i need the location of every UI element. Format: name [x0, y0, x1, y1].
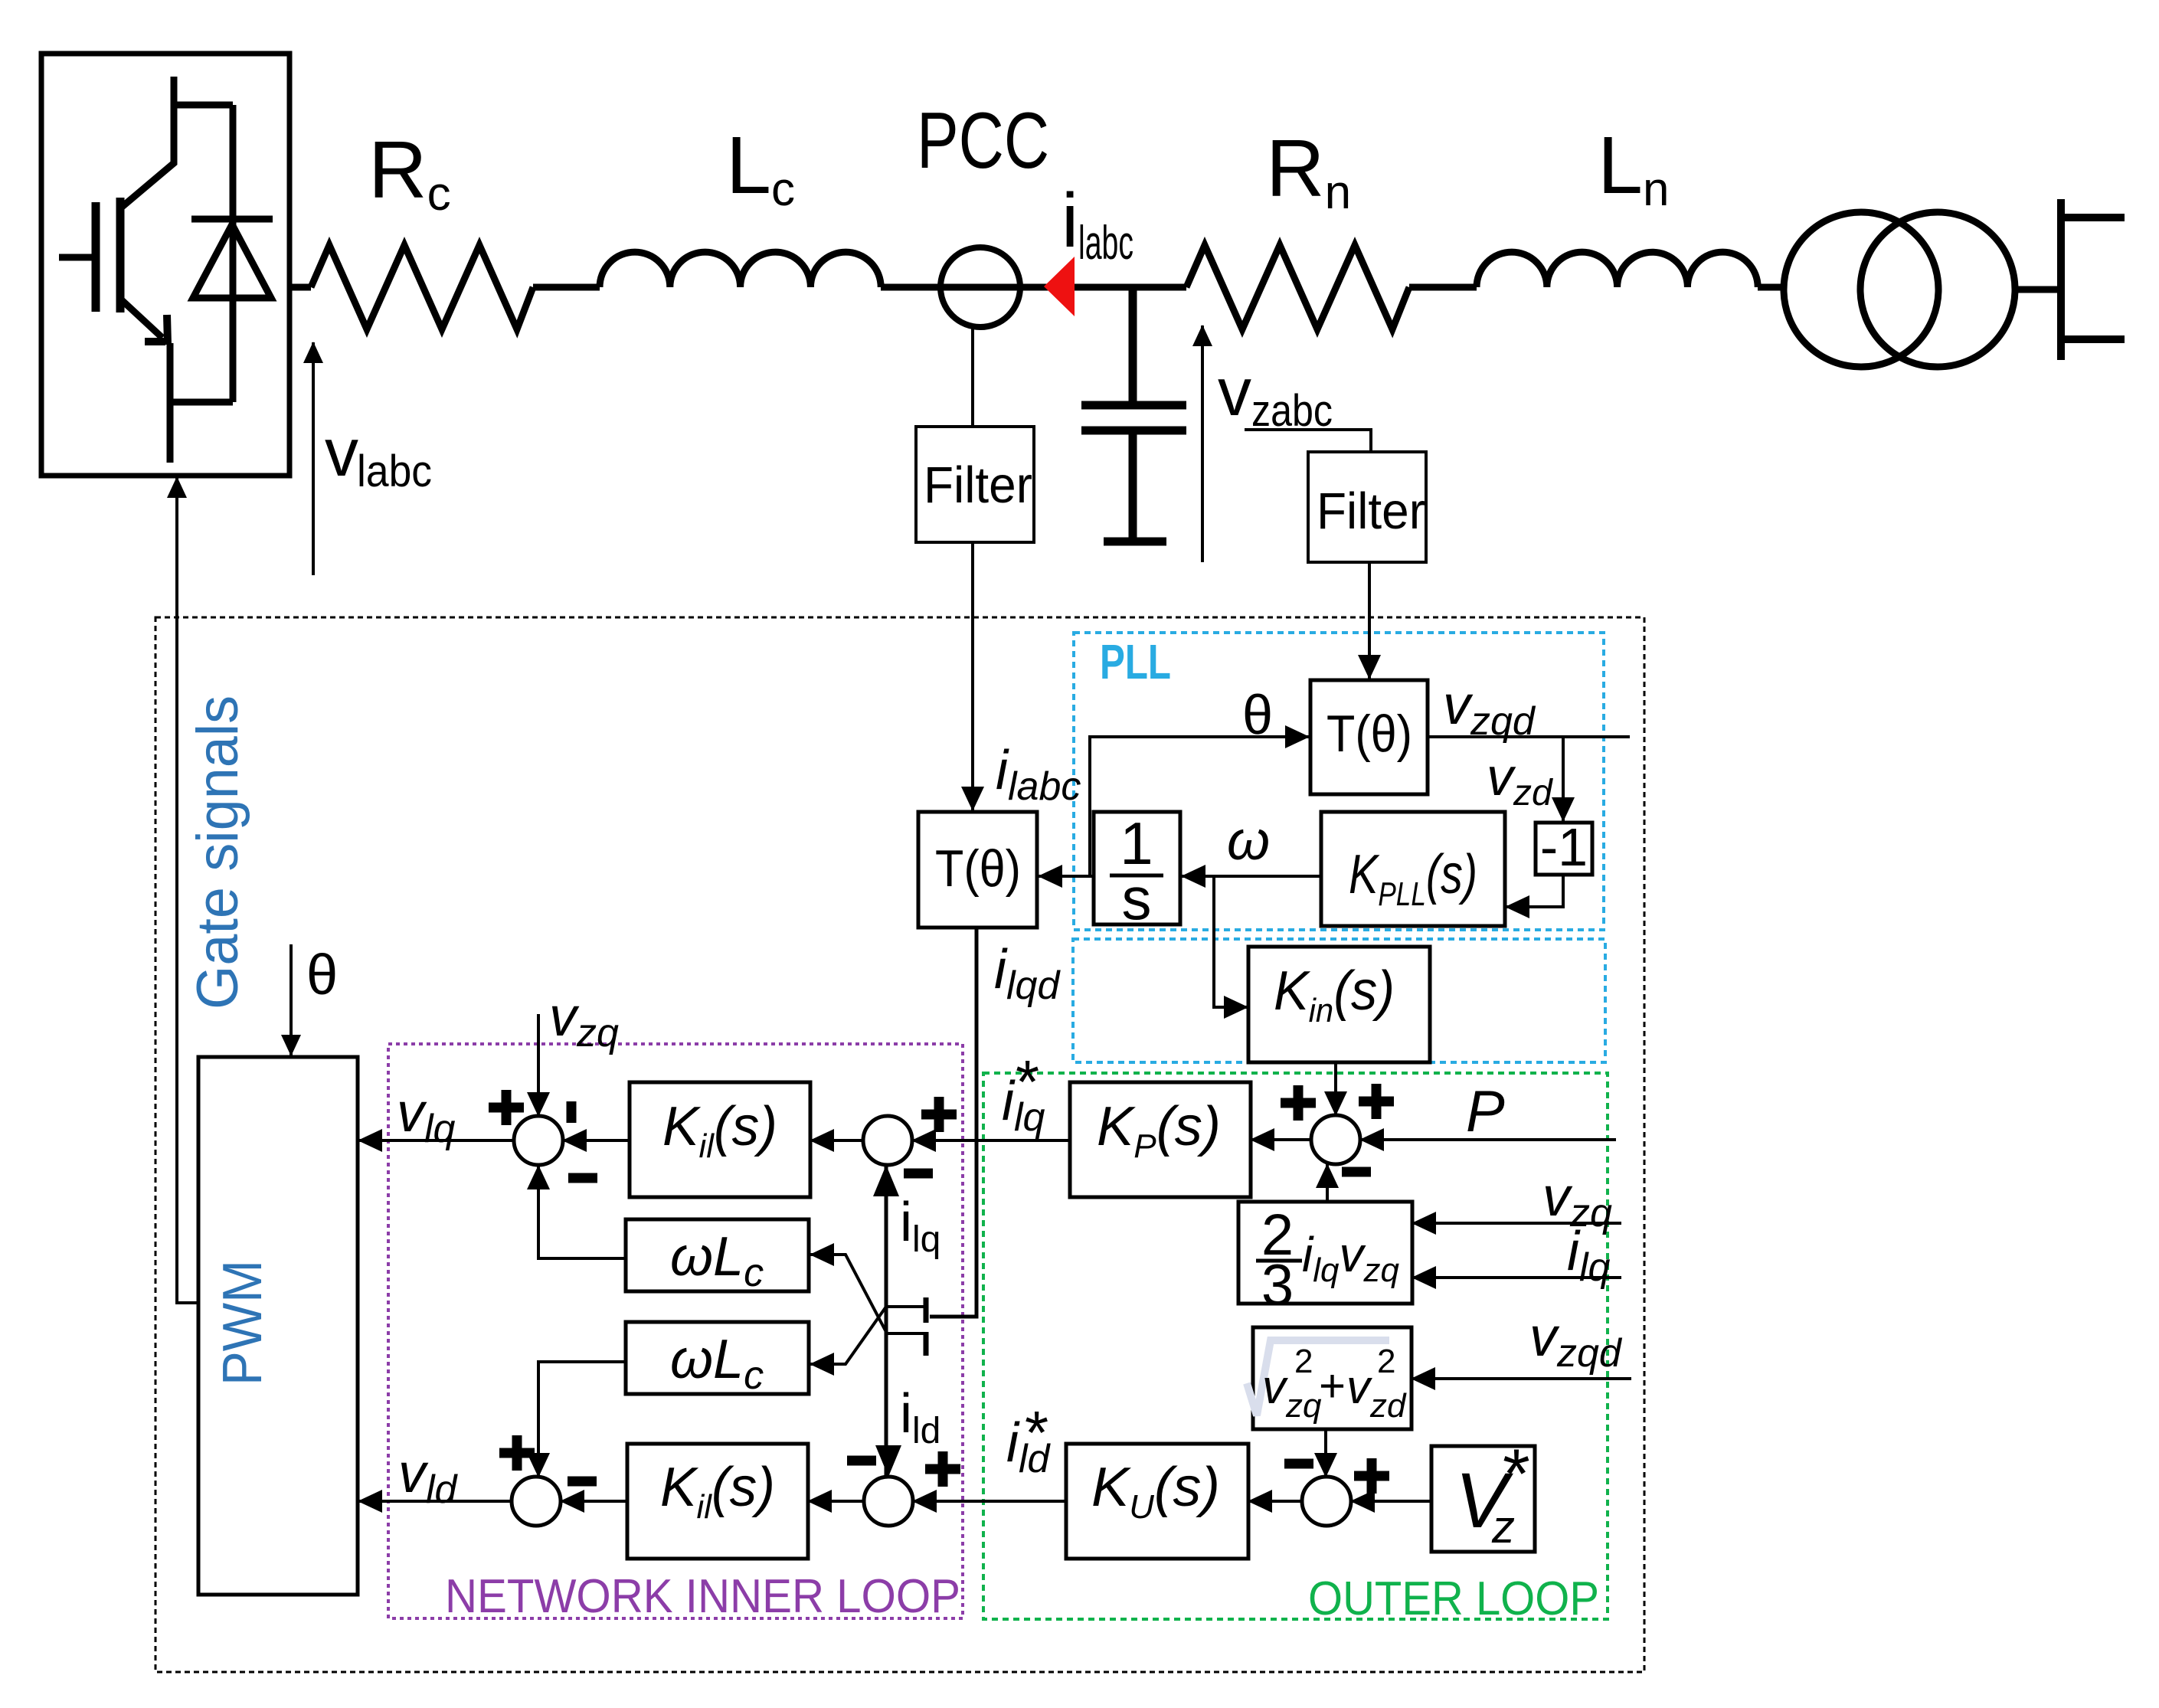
svg-text:v: v: [1218, 354, 1251, 430]
wire K_in to outer sum: [1334, 1062, 1337, 1115]
svg-text:KU(s): KU(s): [1091, 1457, 1220, 1526]
junction bar 2 (i_ld tap): [924, 1332, 929, 1356]
svg-text:PWM: PWM: [212, 1260, 273, 1386]
radical sign (light): [1247, 1340, 1389, 1415]
block K_il(s) q: [630, 1082, 810, 1197]
wire v_zabc tap to Filter2: [1245, 430, 1371, 452]
sign minus q-left bottom: [568, 1173, 597, 1183]
wire K_il q to q-left sum: [563, 1139, 630, 1142]
wire theta feedback to T(theta) PLL: [1090, 737, 1309, 876]
control system outer dashed box: [155, 617, 1644, 1672]
sign plus q-left: [489, 1090, 524, 1125]
wire PCC to Rn: [1020, 284, 1186, 291]
block V*_z: [1431, 1446, 1535, 1552]
svg-text:θ: θ: [306, 943, 338, 1006]
block T(theta) main: [918, 812, 1037, 928]
svg-text:θ: θ: [1242, 685, 1273, 746]
wire cross tap to omega-Lc lower: [810, 1307, 886, 1364]
arrow v_labc (annotation): [312, 342, 315, 575]
svg-text:*: *: [1016, 1048, 1039, 1116]
wire i_lqd bus from T(theta) main: [930, 928, 976, 1317]
sign plus d-left: [499, 1435, 535, 1471]
block K_U(s): [1066, 1444, 1248, 1559]
svg-text:2: 2: [1377, 1343, 1395, 1380]
wire K_il d to d-left sum: [561, 1500, 627, 1503]
junction bar 1 (i_lq tap): [924, 1297, 929, 1323]
sign plus d-mid: [925, 1451, 960, 1487]
wire K_P to q-mid sum (i*_lq): [912, 1139, 1070, 1142]
wire v_zqd from T(theta) PLL: [1428, 735, 1630, 738]
wire v_zqd input to sqrt block: [1412, 1377, 1631, 1380]
arrowhead i_labc (red): [1044, 257, 1075, 316]
svg-text:-1: -1: [1540, 817, 1588, 877]
arrow v_zabc (annotation): [1201, 326, 1204, 562]
wire i_lq/i_ld vertical: [885, 1166, 888, 1475]
svg-text:Kil(s): Kil(s): [660, 1457, 775, 1526]
svg-text:PLL: PLL: [1100, 634, 1171, 689]
svg-text:v: v: [325, 414, 358, 490]
block omega-Lc lower: [626, 1322, 809, 1394]
svg-text:labc: labc: [1078, 217, 1133, 270]
block K_P(s): [1070, 1082, 1251, 1197]
sign minus d-mid: [847, 1456, 876, 1466]
svg-text:P: P: [1466, 1079, 1505, 1144]
wire converter to Rc: [290, 284, 311, 291]
transformer T1: [1784, 212, 1938, 367]
converter U1 (VSC bridge box): [41, 54, 290, 476]
svg-text:v: v: [1262, 1361, 1288, 1414]
wire omega-Lc lower to d-left sum: [538, 1362, 626, 1477]
svg-text:zabc: zabc: [1251, 386, 1333, 436]
wire outer sum to K_P: [1251, 1138, 1311, 1141]
node sum q-left: [514, 1116, 563, 1165]
wire PCC to Filter1: [971, 327, 974, 427]
node sum V: [1302, 1477, 1351, 1526]
arrowhead i_lq into q-mid sum: [873, 1165, 899, 1196]
svg-text:T(θ): T(θ): [935, 839, 1021, 898]
svg-text:OUTER LOOP: OUTER LOOP: [1308, 1572, 1599, 1625]
wire omega K_PLL to 1/s: [1182, 875, 1321, 878]
svg-text:+: +: [1319, 1360, 1346, 1412]
svg-text:KP(s): KP(s): [1097, 1096, 1221, 1165]
inductor Lc: [600, 252, 881, 287]
inductor Ln: [1477, 252, 1758, 287]
svg-text:ω: ω: [1227, 810, 1270, 872]
sign minus outer-bottom: [1342, 1167, 1371, 1177]
filter block F1: [916, 427, 1034, 542]
svg-text:Kil(s): Kil(s): [662, 1096, 777, 1165]
node sum d-left: [512, 1477, 561, 1526]
wire gate signals PWM to converter: [177, 477, 198, 1303]
sign minus V-sum: [1284, 1459, 1313, 1469]
wire v_zq input to 2/3 block: [1412, 1222, 1621, 1225]
wire transformer to grid bus: [2015, 286, 2061, 293]
block 1/s: [1094, 812, 1180, 924]
svg-text:NETWORK INNER LOOP: NETWORK INNER LOOP: [445, 1570, 960, 1623]
block 2/3 i_lq v_zq: [1238, 1202, 1412, 1304]
NETWORK INNER LOOP dashed box: [388, 1044, 963, 1618]
sign plus V-sum: [1354, 1458, 1389, 1494]
wire P input: [1360, 1138, 1616, 1141]
block omega-Lc upper: [626, 1219, 809, 1291]
OUTER LOOP dashed box: [983, 1073, 1608, 1619]
block K_il(s) d: [627, 1444, 808, 1559]
fraction bar 2/3: [1256, 1259, 1302, 1263]
svg-text:T(θ): T(θ): [1326, 705, 1412, 763]
wire q-mid sum to K_il q: [810, 1139, 863, 1142]
block -1: [1536, 823, 1592, 875]
wire omega branch to K_in: [1214, 876, 1248, 1007]
block sqrt(v_zq^2+v_zd^2): [1253, 1327, 1412, 1429]
wire omega-Lc upper to q-left sum: [538, 1166, 626, 1258]
wire Filter1 to T(theta) main (i_labc): [971, 542, 974, 810]
arrow theta into PWM: [290, 944, 293, 1055]
block K_PLL(s): [1321, 812, 1505, 926]
capacitor C1 shunt: [1081, 287, 1186, 542]
svg-text:Filter: Filter: [1317, 483, 1425, 540]
wire K_U to d-mid sum (i*_ld): [913, 1500, 1066, 1503]
fraction bar 1/s: [1110, 874, 1163, 878]
stub i_lq tap: [886, 1305, 926, 1308]
wire V sum to K_U: [1248, 1500, 1302, 1503]
node sum d-mid: [864, 1477, 913, 1526]
svg-text:i: i: [1062, 178, 1078, 263]
sign plus outer-left: [1281, 1085, 1316, 1121]
block T(theta) PLL: [1310, 680, 1428, 794]
sign plus outer-right: [1359, 1084, 1394, 1119]
transistor Q1 (IGBT with gate): [59, 77, 233, 463]
resistor Rn: [1186, 245, 1409, 329]
arrow v_zq into q-left sum: [537, 1014, 540, 1116]
sign minus d-left: [568, 1477, 597, 1487]
svg-text:2: 2: [1294, 1343, 1313, 1380]
svg-text:zq: zq: [1285, 1387, 1322, 1425]
wire Lc to PCC: [881, 284, 939, 291]
wire cross tap to omega-Lc upper: [810, 1255, 886, 1332]
stub i_ld tap: [886, 1332, 926, 1335]
node sum q-mid: [863, 1116, 912, 1165]
diode D1 (anti-parallel): [174, 105, 273, 402]
wire Ln to transformer: [1758, 284, 1784, 291]
wire v_zd branch to -1: [1562, 737, 1565, 821]
svg-text:3: 3: [1261, 1253, 1294, 1318]
arrowhead i_ld into d-mid sum: [875, 1445, 901, 1477]
sign minus-bar q-left: [567, 1101, 577, 1123]
svg-text:zd: zd: [1369, 1387, 1407, 1425]
svg-text:Gate signals: Gate signals: [185, 695, 250, 1009]
wire Rc to Lc: [533, 284, 600, 291]
wire 2/3 block to outer sum: [1326, 1164, 1329, 1202]
svg-text:*: *: [1025, 1399, 1048, 1467]
wire Filter2 to T(theta) PLL: [1368, 562, 1371, 679]
block K_in(s): [1248, 947, 1430, 1062]
wire v_ld to PWM: [358, 1500, 512, 1503]
wire sqrt block to V sum: [1324, 1429, 1327, 1477]
svg-text:Kin(s): Kin(s): [1274, 960, 1395, 1029]
filter block F2: [1308, 452, 1426, 562]
wire v_lq to PWM: [358, 1139, 514, 1142]
wire i_lq input to 2/3 block: [1412, 1276, 1621, 1279]
svg-text:PCC: PCC: [917, 97, 1049, 185]
sign plus q-mid: [921, 1097, 957, 1132]
node sum outer P: [1311, 1115, 1360, 1164]
wire Rn to Ln: [1409, 284, 1477, 291]
svg-text:Filter: Filter: [924, 456, 1032, 514]
svg-text:v: v: [1346, 1361, 1372, 1414]
svg-text:labc: labc: [357, 447, 432, 496]
grid bus (infinite bus): [2061, 199, 2125, 360]
svg-text:*: *: [1503, 1435, 1530, 1513]
node PCC (measurement circle): [940, 247, 1020, 327]
sign minus q-mid bottom: [904, 1169, 933, 1179]
inner current dashed box (cyan second): [1073, 939, 1605, 1062]
PWM block: [198, 1057, 358, 1595]
wire 1/s to T(theta) main: [1039, 875, 1094, 878]
wire d-mid sum to K_il d: [808, 1500, 864, 1503]
wire V*_z to V sum: [1351, 1500, 1431, 1503]
wire -1 to K_PLL: [1506, 875, 1563, 907]
PLL dashed box: [1074, 633, 1604, 930]
resistor Rc: [311, 245, 533, 329]
